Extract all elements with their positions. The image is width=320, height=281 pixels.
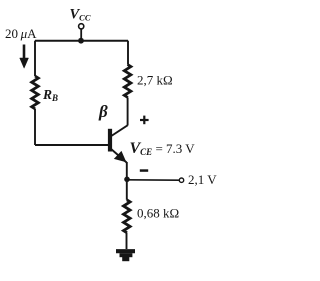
svg-text:RB: RB (42, 87, 58, 103)
wire emitter vertical (126, 162, 128, 200)
transistor emitter arrowhead (115, 152, 126, 162)
svg-text:VCC: VCC (70, 7, 91, 23)
svg-text:2,1 V: 2,1 V (188, 172, 217, 187)
svg-text:0,68 kΩ: 0,68 kΩ (137, 206, 179, 221)
resistor 0.68k (124, 200, 131, 233)
junction dot emitter node (124, 177, 130, 183)
wire ground lead (126, 233, 128, 249)
arrow current 20uA (20, 45, 29, 69)
label plus (140, 116, 149, 125)
ground (116, 251, 135, 259)
node output terminal circle (179, 178, 183, 182)
transistor emitter line (111, 149, 127, 163)
resistor 2.7k (124, 65, 131, 98)
wire left vertical lower (34, 109, 36, 145)
wire top horizontal (35, 40, 128, 42)
junction dot at top node (78, 38, 84, 44)
wire base horizontal (35, 144, 108, 146)
svg-text:β: β (98, 102, 108, 121)
wire right vertical top (127, 41, 129, 65)
svg-text:2,7 kΩ: 2,7 kΩ (137, 73, 173, 88)
wire output horizontal (127, 179, 179, 181)
svg-text:20 μA: 20 μA (5, 26, 37, 41)
resistor RB (32, 76, 39, 109)
wire left vertical upper (34, 41, 36, 76)
transistor Q1 base bar (108, 129, 112, 152)
label minus (140, 169, 148, 172)
transistor collector line (111, 125, 128, 136)
wire VCC stub (80, 29, 82, 41)
svg-text:VCE = 7.3 V: VCE = 7.3 V (130, 140, 196, 157)
node VCC terminal circle (79, 24, 84, 29)
wire collector vertical (127, 98, 129, 126)
